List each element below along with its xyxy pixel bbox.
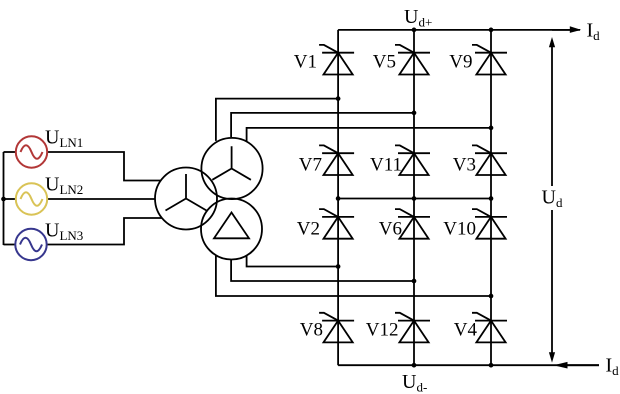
thyristor V1 [319,45,354,75]
svg-text:ULN3: ULN3 [45,219,83,243]
wire secondary Y phase a [216,99,338,141]
svg-text:V3: V3 [453,155,476,176]
thyristor V8 [319,313,354,343]
wire bridge column 3 [490,30,492,365]
svg-text:Id: Id [606,355,620,379]
wire phase L3 to primary [47,218,162,245]
svg-text:V12: V12 [366,320,399,341]
voltage source ULN3 [15,229,46,260]
thyristor V11 [395,145,430,175]
voltage source ULN1 [16,136,47,167]
svg-text:Ud-: Ud- [402,371,427,394]
junction node bottom rail col3 [489,363,494,368]
thyristor V4 [472,313,507,343]
transformer secondary winding Y (wye) [201,138,262,199]
junction node bottom rail col2 [412,363,417,368]
junction node tap Y col2 [412,111,417,116]
wire bridge column 1 [337,30,339,365]
svg-text:ULN2: ULN2 [45,174,83,198]
thyristor V7 [319,145,354,175]
thyristor V12 [395,313,430,343]
wire middle rail [338,198,491,200]
wire bridge column 2 [413,30,415,365]
junction node tap Y col1 [336,96,341,101]
dimension line Ud [549,37,555,363]
svg-text:V4: V4 [454,320,478,341]
thyristor V6 [395,209,430,239]
junction node tap D col1 [336,264,341,269]
wire secondary Y phase c [247,128,491,141]
thyristor V10 [472,209,507,239]
thyristor V9 [472,45,507,75]
transformer secondary winding D (delta) [201,199,262,260]
wire secondary D phase c [216,256,491,297]
thyristor V2 [319,209,354,239]
junction node middle rail col2 [412,196,417,201]
thyristor V5 [395,45,430,75]
transformer primary winding (wye) [155,168,217,230]
wire source L2 left lead [4,198,16,200]
wire phase L2 to primary [47,198,155,200]
wire secondary D phase a [247,256,339,267]
junction node middle rail col3 [489,196,494,201]
wire secondary D phase b [231,260,414,282]
svg-text:V5: V5 [373,52,396,73]
junction node tap D col3 [489,294,494,299]
svg-text:V6: V6 [379,219,402,240]
junction node source bus [1,197,6,202]
svg-text:V2: V2 [297,219,320,240]
svg-text:V10: V10 [443,219,476,240]
arrow Id top [552,26,581,33]
junction node middle rail col1 [336,196,341,201]
arrow Id bottom [554,362,600,369]
svg-text:Id: Id [587,20,601,44]
junction node top rail col3 [489,28,494,33]
svg-text:V8: V8 [300,320,323,341]
svg-text:ULN1: ULN1 [45,127,83,151]
svg-text:V9: V9 [449,52,472,73]
voltage source ULN2 [16,183,47,214]
junction node top rail col2 [412,28,417,33]
thyristor V3 [472,145,507,175]
wire top rail Ud+ [338,29,580,31]
wire secondary Y phase b [231,113,414,137]
svg-text:V7: V7 [299,155,322,176]
junction node tap Y col3 [489,126,494,131]
junction node tap D col2 [412,279,417,284]
svg-text:V11: V11 [370,155,402,176]
svg-text:Ud+: Ud+ [404,6,432,30]
wire left bus vertical [3,152,5,245]
wire phase L1 to primary [47,152,161,181]
wire source L3 left lead [4,244,16,246]
label Ud right [538,186,565,210]
wire source L1 left lead [4,151,16,153]
svg-text:V1: V1 [294,52,317,73]
wire bottom rail Ud- [338,364,599,366]
